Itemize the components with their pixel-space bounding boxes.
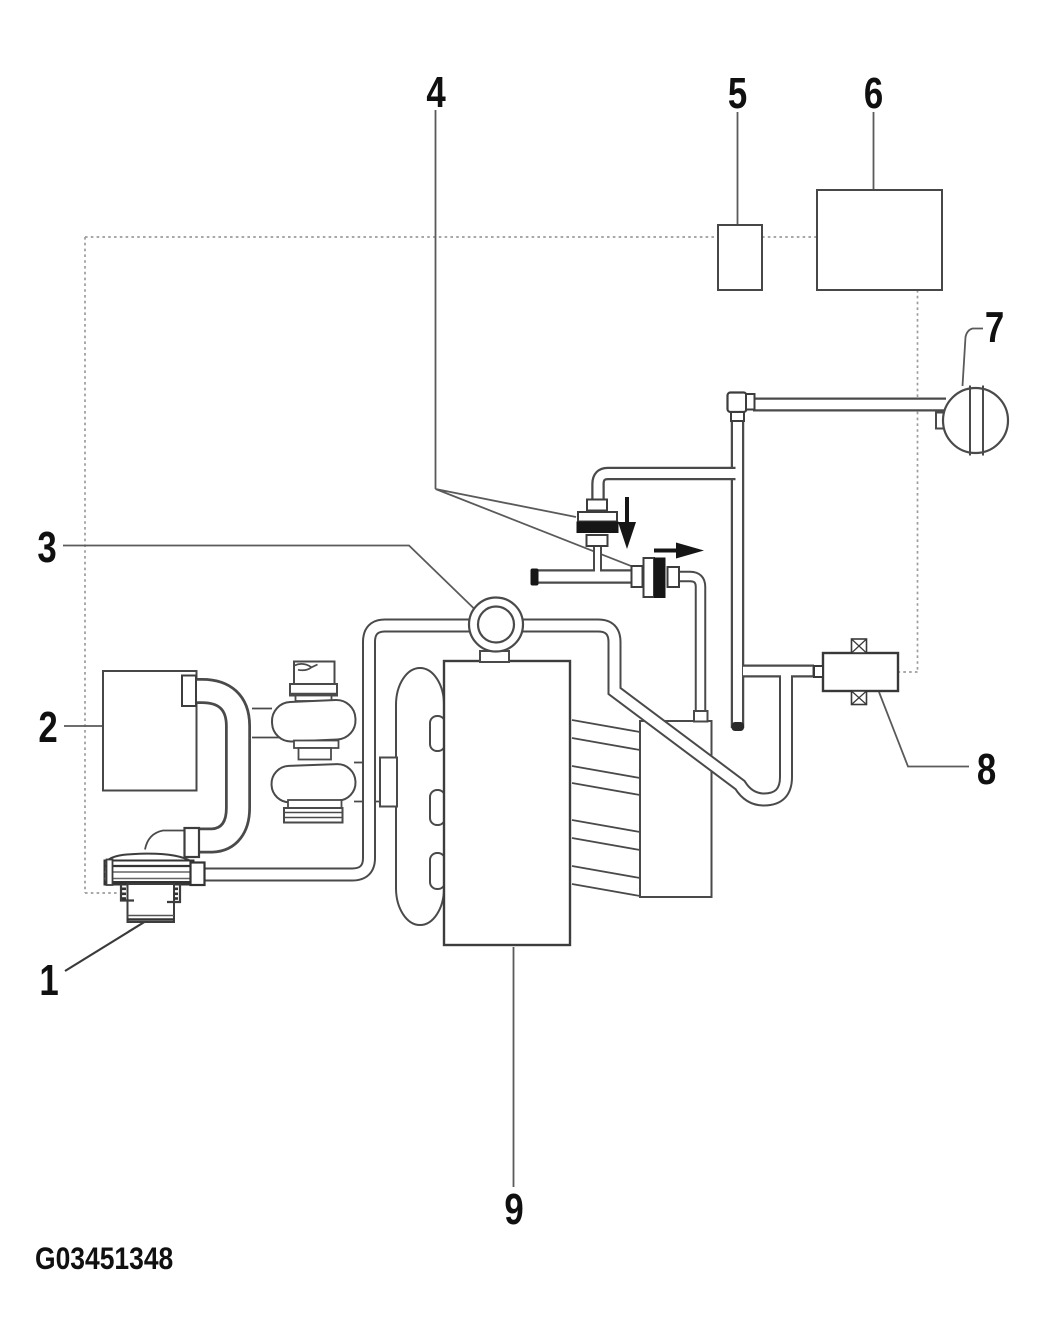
air pump 1 motor body <box>128 884 175 922</box>
exhaust canister (tall box right of engine) <box>640 721 712 897</box>
air pump 1 outlet block <box>191 863 205 886</box>
air duct stub lower-left of bellows <box>252 737 281 739</box>
check valve 4 flange <box>578 512 617 522</box>
svg-text:9: 9 <box>504 1185 523 1234</box>
intake manifold lobe left of engine <box>396 668 444 925</box>
air pump 1 right clip <box>167 884 180 902</box>
runner bump 2 <box>430 790 445 825</box>
wire: vacuum pipe from elbow down core <box>733 420 742 728</box>
svg-text:G03451348: G03451348 <box>35 1242 173 1277</box>
torn-hose mark on cap <box>295 664 318 670</box>
wire: pipe to vacuum reservoir ball 7 dark <box>753 398 946 412</box>
vacuum reservoir ball 7 <box>943 388 1008 453</box>
bellows base <box>284 808 343 823</box>
wire: vacuum pipe from elbow down past tee dark <box>731 420 745 728</box>
air duct stub upper-left of bellows <box>252 708 272 710</box>
valve 8 top bolt <box>852 639 867 653</box>
shut-off valve 4 black plate <box>654 558 666 599</box>
wire: throttle-to-manifold diagonal pipe dark <box>520 626 786 800</box>
check valve 4 bottom collar <box>587 535 608 546</box>
leader line label 1 <box>65 921 146 971</box>
capped open end of vacuum pipe <box>732 722 745 731</box>
air pump 1 intake coupler <box>185 828 200 857</box>
air duct stub upper-right of bellows <box>354 762 363 764</box>
valve 8 bottom bolt <box>852 691 867 705</box>
control valve 8 body <box>823 653 898 691</box>
valve 8 left nipple <box>814 666 823 677</box>
wire: pipe to vacuum reservoir ball 7 core <box>753 400 946 410</box>
wire: valve-to-canister pipe core <box>679 577 701 714</box>
vacuum ball 7 left tab <box>936 413 945 429</box>
dotted harness boundary bottom-left segment to air pump <box>85 892 117 894</box>
svg-text:4: 4 <box>426 68 445 117</box>
bellows bottom collar <box>288 800 342 808</box>
dotted harness boundary left edge <box>84 237 86 893</box>
bellows lower bulge <box>271 764 356 803</box>
throttle neck <box>480 651 509 662</box>
canister top fitting <box>694 711 708 722</box>
svg-text:7: 7 <box>985 303 1004 352</box>
air pump 1 lid band <box>105 861 194 885</box>
dark end cap of valve left pipe <box>531 569 539 586</box>
right flow arrow <box>654 549 677 553</box>
leader line label 3 <box>63 546 475 610</box>
bellows middle neck <box>299 748 332 760</box>
bellows top neck <box>296 696 332 702</box>
control module box 6 <box>817 190 942 290</box>
bellows upper bulge <box>271 699 356 742</box>
elbow horizontal collar <box>746 394 755 410</box>
shut-off valve 4 (horizontal) left collar <box>632 566 643 587</box>
runner bump 1 <box>430 716 445 751</box>
leader line label 4 <box>436 110 646 572</box>
elbow fitting near ball 7 <box>728 393 747 413</box>
svg-text:2: 2 <box>38 703 57 752</box>
elbow lower collar <box>731 412 744 421</box>
leader line label 8 <box>879 692 969 767</box>
runner bump 3 <box>430 853 445 889</box>
bellows top cap <box>294 662 335 685</box>
wire: check valve lower shaft dark <box>593 542 602 571</box>
wire: valve-to-canister pipe dark <box>679 577 701 714</box>
exhaust runner fan lines <box>572 720 640 896</box>
air pump 1 left clip <box>121 884 134 901</box>
svg-text:5: 5 <box>728 69 747 118</box>
leader line label 6 <box>873 112 875 189</box>
intake port stub on lobe <box>380 758 397 807</box>
wire: valve left pipe dark <box>534 569 634 584</box>
down flow arrow <box>625 497 629 523</box>
wire: big hose from reservoir 2 to air pump core <box>186 691 238 841</box>
wire: air supply loop pipe core <box>204 626 472 875</box>
reservoir box 2 <box>103 671 197 791</box>
leader line label 7 <box>963 329 984 387</box>
svg-text:1: 1 <box>39 956 58 1005</box>
hose end inner wall hook onto pump lid <box>145 831 186 850</box>
leader line label 9 <box>513 947 515 1187</box>
bellows top collar <box>290 684 337 696</box>
leader line label 5 <box>737 112 739 224</box>
ball 7 strap band <box>970 386 983 456</box>
wire: check valve top pipe core <box>598 474 736 503</box>
throttle body circle 3 <box>469 598 523 652</box>
wire: valve left pipe core <box>534 572 634 582</box>
reservoir 2 outlet port <box>182 676 196 707</box>
check valve 4 (vertical) top collar <box>587 500 607 511</box>
bellows middle collar <box>294 741 339 749</box>
svg-text:3: 3 <box>37 523 56 572</box>
dotted wire from box 6 down to valve 8 <box>898 290 918 672</box>
wire: vacuum hose to valve 8 core <box>743 667 813 676</box>
svg-text:6: 6 <box>864 69 883 118</box>
wire: throttle-to-manifold diagonal pipe core <box>520 626 786 800</box>
leader line label 2 <box>64 725 118 727</box>
wire: check valve lower shaft core <box>595 542 600 572</box>
wire: vacuum hose to valve 8 dark <box>741 665 814 678</box>
air pump 1 lid left cap <box>107 860 113 886</box>
dotted harness boundary top edge <box>85 236 817 238</box>
shut-off valve 4 white plate <box>644 558 655 597</box>
engine block 9 <box>444 661 570 945</box>
wire: big hose from reservoir 2 to air pump dark <box>186 691 238 841</box>
wire: air supply loop pipe (pump to throttle) dark <box>204 626 472 875</box>
svg-text:8: 8 <box>977 745 996 794</box>
wire: check valve top pipe dark <box>598 474 736 503</box>
air duct stub lower-right of bellows <box>354 801 381 803</box>
check valve 4 black band <box>577 522 619 534</box>
shut-off valve 4 right collar <box>668 567 680 587</box>
relay box 5 <box>718 225 762 290</box>
air pump 1 dome top <box>107 854 192 862</box>
